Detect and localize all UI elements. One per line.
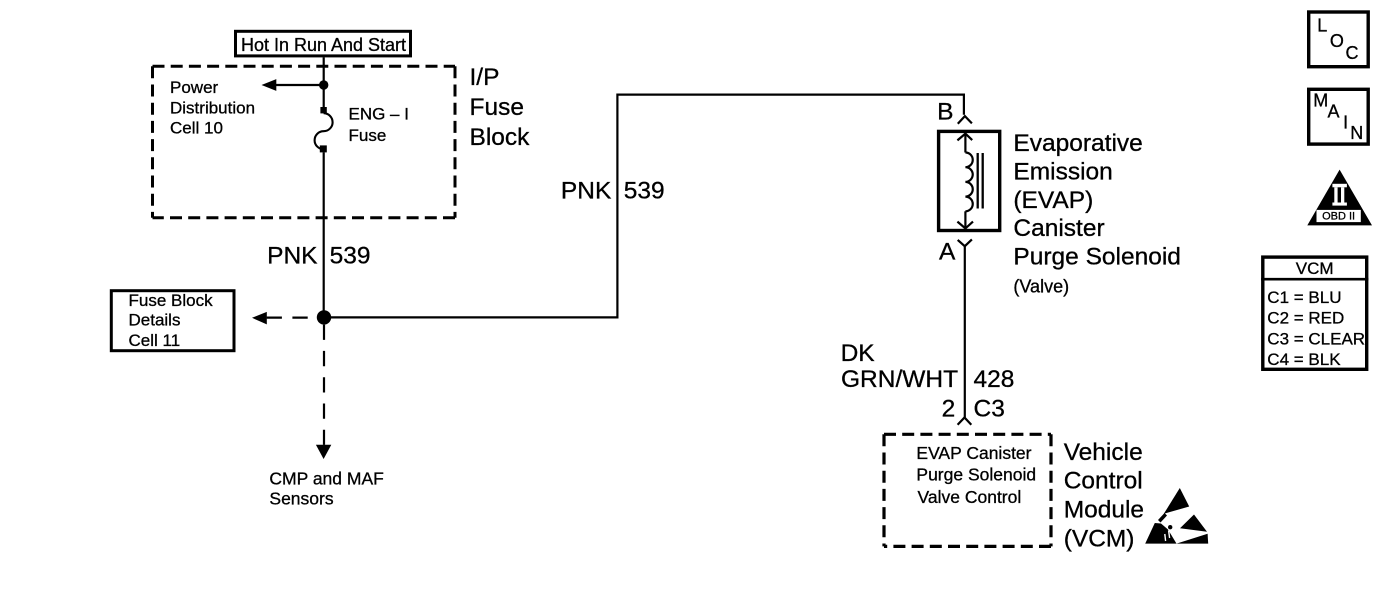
svg-text:(Valve): (Valve) [1013,277,1069,297]
svg-text:C3 = CLEAR: C3 = CLEAR [1267,329,1365,348]
svg-text:Cell 10: Cell 10 [170,119,223,138]
svg-text:Fuse: Fuse [470,94,524,121]
svg-text:DK: DK [841,340,876,367]
svg-text:Module: Module [1064,497,1144,524]
svg-text:C1 = BLU: C1 = BLU [1267,288,1341,307]
svg-text:Block: Block [470,124,531,151]
svg-text:428: 428 [974,366,1015,393]
svg-text:I: I [1343,112,1348,132]
svg-text:539: 539 [624,178,665,205]
svg-text:GRN/WHT: GRN/WHT [841,366,958,393]
svg-text:C: C [1346,43,1359,63]
svg-text:2: 2 [942,396,956,423]
svg-text:Cell 11: Cell 11 [129,331,181,350]
svg-text:Purge Solenoid: Purge Solenoid [1013,244,1181,271]
svg-text:EVAP Canister: EVAP Canister [916,443,1031,463]
svg-text:VCM: VCM [1296,259,1334,278]
svg-text:A: A [939,239,956,266]
svg-text:Control: Control [1064,468,1143,495]
svg-text:PNK: PNK [267,243,318,270]
svg-text:N: N [1350,123,1363,143]
svg-text:Evaporative: Evaporative [1013,130,1142,157]
svg-text:ENG – I: ENG – I [349,105,409,124]
svg-text:Vehicle: Vehicle [1064,439,1143,466]
svg-text:539: 539 [330,243,371,270]
svg-text:Power: Power [170,78,219,97]
svg-text:PNK: PNK [561,178,612,205]
svg-text:Canister: Canister [1013,215,1104,242]
svg-text:Distribution: Distribution [170,98,255,117]
svg-text:Valve Control: Valve Control [918,487,1022,507]
svg-text:A: A [1328,102,1340,122]
svg-text:Hot In Run And Start: Hot In Run And Start [241,35,406,55]
svg-text:C4 = BLK: C4 = BLK [1267,350,1341,369]
svg-text:Sensors: Sensors [269,488,333,508]
svg-text:C2 = RED: C2 = RED [1267,309,1344,328]
svg-text:I/P: I/P [470,64,500,91]
svg-text:(VCM): (VCM) [1064,526,1135,553]
svg-text:Details: Details [129,310,181,329]
svg-text:M: M [1313,91,1328,111]
svg-text:O: O [1330,31,1344,51]
svg-text:C3: C3 [974,396,1005,423]
svg-text:Purge Solenoid: Purge Solenoid [916,465,1036,485]
svg-text:Fuse Block: Fuse Block [129,291,214,310]
svg-text:CMP and MAF: CMP and MAF [269,469,383,489]
svg-text:L: L [1317,15,1327,35]
svg-text:Fuse: Fuse [349,126,387,145]
svg-text:Emission: Emission [1013,158,1112,185]
svg-text:OBD II: OBD II [1322,211,1355,223]
svg-text:(EVAP): (EVAP) [1013,187,1093,214]
svg-text:B: B [937,99,953,126]
